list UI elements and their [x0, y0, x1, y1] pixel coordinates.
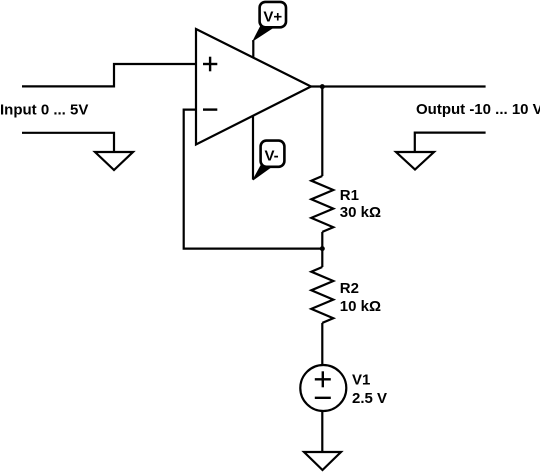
resistor R1 — [311, 176, 333, 232]
wire output ground — [415, 133, 486, 152]
node V- flag — [253, 165, 273, 181]
resistor R2 — [311, 267, 333, 323]
wire V1 to ground — [321, 411, 323, 452]
wire output to R1 — [321, 87, 323, 177]
svg-text:V1: V1 — [352, 372, 370, 389]
wire R1 to junction — [321, 232, 323, 249]
wire V- supply — [252, 116, 254, 179]
svg-text:30 kΩ: 30 kΩ — [340, 204, 381, 221]
svg-text:R2: R2 — [340, 280, 359, 297]
wire input ground — [22, 133, 114, 152]
wire V+ supply — [252, 40, 254, 58]
voltage source V1 — [300, 365, 346, 411]
wire junction to R2 — [321, 249, 323, 267]
wire input top — [22, 64, 196, 86]
node feedback junction — [320, 246, 325, 251]
op-amp U1 — [196, 29, 311, 145]
svg-text:Input 0 ... 5V: Input 0 ... 5V — [0, 101, 88, 118]
wire R2 to V1 — [321, 323, 323, 365]
node output junction — [320, 84, 325, 89]
ground right — [396, 152, 434, 170]
svg-text:10 kΩ: 10 kΩ — [340, 298, 381, 315]
svg-text:2.5 V: 2.5 V — [352, 390, 387, 407]
svg-text:Output -10 ... 10 V: Output -10 ... 10 V — [416, 101, 540, 118]
svg-text:R1: R1 — [340, 187, 359, 204]
ground bottom — [304, 452, 341, 470]
node V+ flag — [253, 27, 272, 41]
svg-text:V+: V+ — [263, 9, 282, 26]
wire inverting input feedback — [184, 110, 322, 249]
wire output — [311, 85, 486, 87]
ground left — [95, 152, 133, 170]
svg-text:V-: V- — [265, 147, 279, 164]
